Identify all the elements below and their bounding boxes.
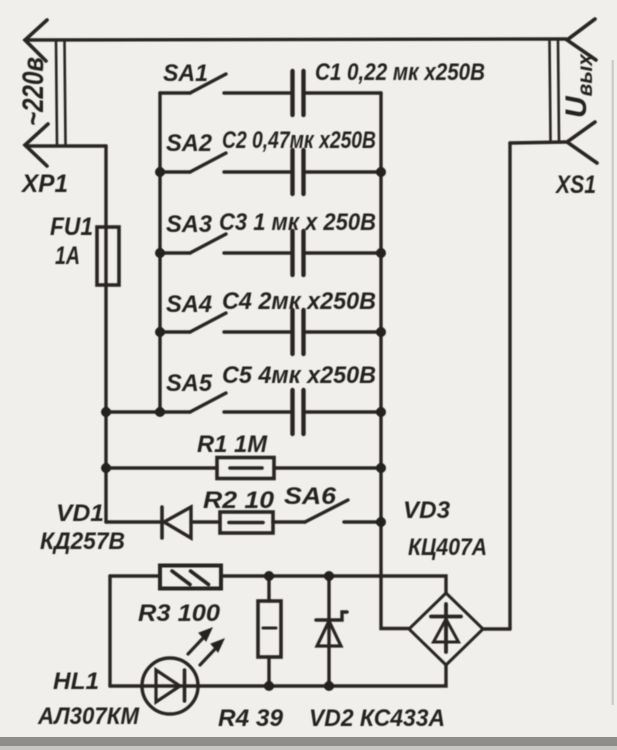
svg-text:R4 39: R4 39: [218, 705, 284, 732]
svg-text:SA1: SA1: [163, 60, 208, 87]
capacitor C1: [290, 71, 294, 115]
svg-text:КД257В: КД257В: [40, 528, 125, 555]
node: right bus / R1: [376, 463, 386, 473]
node: right bus / C4: [376, 327, 386, 337]
mains cord double line (left): [56, 42, 57, 144]
node: right bus / SA6: [376, 517, 386, 527]
connector XP1 lower pin arrow: [25, 124, 48, 166]
scan edge faint line right: [612, 60, 614, 705]
svg-text:SA5: SA5: [166, 370, 213, 397]
resistor R3: [160, 566, 221, 589]
svg-text:С5 4мк х250В: С5 4мк х250В: [222, 362, 376, 389]
resistor R2: [220, 512, 273, 533]
svg-text:FU1: FU1: [50, 213, 93, 241]
connector XS1 upper pin arrow: [567, 19, 596, 60]
wire: XS1 output bus vertical: [508, 143, 511, 629]
node: top rail / R4: [264, 571, 274, 581]
LED HL1: [110, 665, 446, 686]
wire: bottom loop left vertical: [108, 576, 111, 686]
connector XP1 upper pin arrow: [25, 20, 47, 61]
svg-text:С3 1 мк х 250В: С3 1 мк х 250В: [219, 209, 376, 236]
node: switch bus / SA3: [155, 248, 165, 258]
capacitor C5: [290, 390, 294, 434]
wire: XS1 lower pin to right output bus: [510, 142, 566, 143]
node: bottom rail / R4: [264, 681, 274, 691]
capacitor C2: [290, 150, 294, 194]
switch SA3: [160, 251, 190, 254]
switch SA1: [160, 91, 190, 94]
node: right bus / C5: [376, 407, 386, 417]
fuse FU1 body: [97, 227, 119, 285]
svg-text:HL1: HL1: [53, 668, 99, 695]
node: left bus / SA5 row: [101, 407, 111, 417]
svg-text:КЦ407А: КЦ407А: [408, 534, 487, 561]
svg-text:ХР1: ХР1: [20, 170, 68, 198]
scan edge band at bottom: [0, 737, 617, 746]
svg-text:SA2: SA2: [166, 130, 213, 157]
svg-text:SA3: SA3: [166, 211, 213, 238]
svg-text:R1 1М: R1 1М: [197, 431, 268, 458]
switch SA4: [160, 330, 190, 333]
node: bottom rail / VD2: [324, 681, 334, 691]
wire: top mains wire L (XP1 pin1 to XS1 pin1): [25, 39, 566, 40]
svg-text:1А: 1А: [55, 242, 80, 270]
node: right bus / C2: [376, 167, 386, 177]
connector XS1 lower pin arrow: [567, 122, 597, 163]
LED HL1 emission arrows: [188, 637, 204, 654]
capacitor C3: [290, 231, 294, 275]
bridge rectifier VD3 body: [409, 593, 483, 665]
wire: bottom loop top rail (bridge + to R3/R4/VD2): [110, 574, 160, 577]
svg-text:С2 0,47мк х250В: С2 0,47мк х250В: [222, 127, 376, 154]
svg-text:VD1: VD1: [56, 500, 104, 527]
capacitor C4: [290, 310, 294, 354]
node: switch bus / SA4: [155, 327, 165, 337]
wire: switch bus vertical: [158, 93, 161, 412]
diode VD1: [106, 520, 161, 523]
svg-text:SА6: SА6: [284, 483, 337, 510]
svg-text:VD3: VD3: [403, 497, 451, 524]
resistor R1: [106, 466, 217, 469]
svg-text:R3 100: R3 100: [138, 600, 221, 627]
switch SA2: [160, 170, 190, 173]
svg-text:SA4: SA4: [166, 291, 212, 318]
node: top rail / VD2: [324, 571, 334, 581]
node: right bus / C3: [376, 248, 386, 258]
wire: bridge AC output to XS1 bus: [484, 627, 510, 630]
node: left bus / R1 row: [101, 463, 111, 473]
switch SA5: [190, 393, 226, 412]
node: switch bus / SA5: [155, 407, 165, 417]
zener diode VD2: [327, 576, 330, 686]
svg-text:R2 10: R2 10: [203, 487, 275, 514]
svg-text:С1 0,22 мк х250В: С1 0,22 мк х250В: [315, 59, 485, 86]
wire: XP1 lower pin to left bus: [26, 144, 106, 147]
wire: SA5 row tap from left bus to switch bus: [106, 410, 190, 413]
node: switch bus / SA2: [155, 167, 165, 177]
svg-text:ХS1: ХS1: [554, 171, 596, 199]
svg-text:С4 2мк х250В: С4 2мк х250В: [222, 288, 376, 315]
bridge rectifier VD3 internal diode: [444, 604, 448, 652]
svg-text:АЛ307КМ: АЛ307КМ: [37, 703, 140, 730]
mains cord double line (right): [550, 41, 551, 140]
wire: left bus from XP1 down through fuse to VD1 row: [104, 146, 107, 522]
resistor R4: [267, 576, 270, 601]
wire: right capacitor bus down to bridge AC input: [381, 93, 408, 629]
svg-text:VD2 КС433А: VD2 КС433А: [309, 705, 445, 732]
switch SA6: [273, 520, 305, 523]
svg-text:~220в: ~220в: [17, 57, 50, 126]
